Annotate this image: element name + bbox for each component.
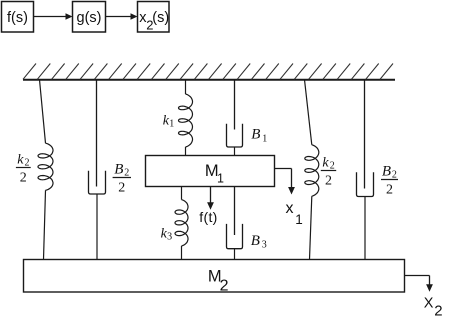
svg-text:B: B — [114, 162, 123, 178]
svg-text:x: x — [286, 200, 294, 217]
svg-text:2: 2 — [325, 174, 332, 189]
svg-text:3: 3 — [262, 240, 267, 251]
svg-text:2: 2 — [20, 171, 27, 186]
svg-text:f(s): f(s) — [7, 10, 28, 26]
svg-text:B: B — [251, 233, 260, 249]
svg-text:3: 3 — [167, 232, 172, 243]
svg-text:(s): (s) — [152, 10, 169, 26]
svg-text:f(t): f(t) — [199, 209, 217, 225]
svg-text:2: 2 — [25, 157, 30, 168]
svg-text:1: 1 — [295, 212, 303, 227]
svg-text:X: X — [424, 296, 434, 312]
svg-text:1: 1 — [262, 134, 267, 145]
svg-text:2: 2 — [118, 181, 125, 196]
svg-text:k: k — [322, 156, 329, 171]
svg-text:g(s): g(s) — [77, 10, 102, 26]
svg-text:k: k — [17, 153, 24, 168]
svg-text:2: 2 — [386, 183, 393, 198]
svg-text:1: 1 — [217, 172, 224, 186]
svg-text:1: 1 — [169, 119, 174, 130]
svg-text:2: 2 — [330, 160, 335, 171]
svg-text:B: B — [382, 164, 391, 180]
svg-text:2: 2 — [124, 167, 129, 178]
svg-text:2: 2 — [434, 302, 442, 317]
svg-text:2: 2 — [392, 169, 397, 180]
svg-text:2: 2 — [220, 278, 229, 295]
svg-text:B: B — [251, 127, 260, 143]
